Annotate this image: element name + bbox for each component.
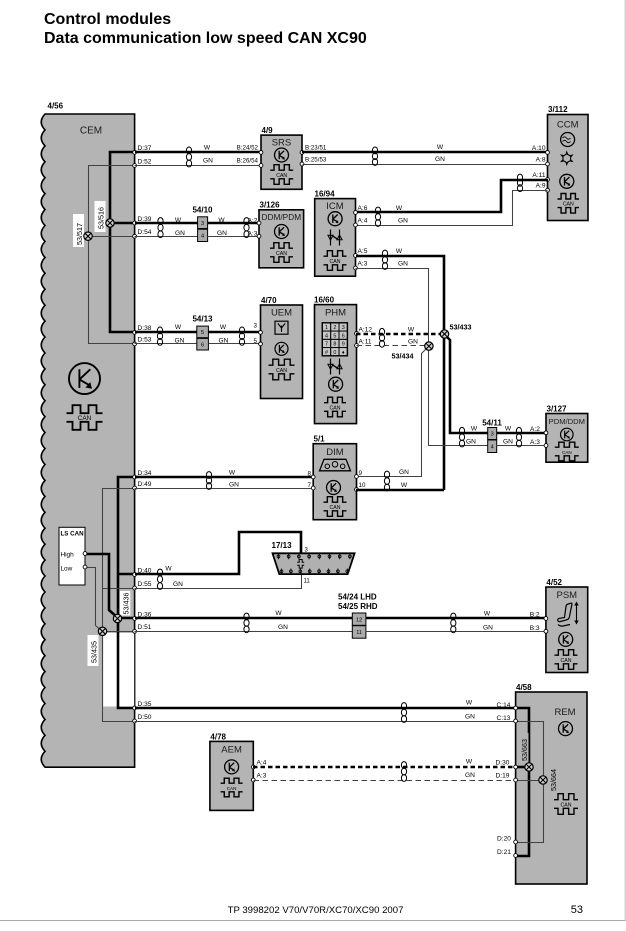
pin ICM A:6 [354, 211, 358, 215]
pin REM D:19 [514, 778, 518, 782]
svg-text:GN: GN [435, 156, 445, 163]
svg-text:A:9: A:9 [536, 183, 546, 190]
svg-text:CAN: CAN [330, 405, 341, 411]
svg-text:W: W [175, 217, 182, 224]
wire REM D:30 stub [516, 766, 529, 769]
icon UEM CAN [269, 359, 295, 380]
svg-text:GN: GN [173, 581, 183, 588]
svg-text:B:3: B:3 [530, 625, 540, 632]
module CCM 3/112 box [548, 115, 589, 221]
icon ICM immobilizer [328, 230, 342, 246]
svg-text:4/52: 4/52 [546, 578, 562, 587]
svg-text:GN: GN [465, 772, 475, 779]
junction 53/516 [106, 219, 114, 227]
icon PHM keypad [322, 323, 347, 356]
svg-text:High: High [61, 552, 75, 559]
icon PHM immobilizer [328, 359, 342, 375]
svg-text:54/25 RHD: 54/25 RHD [338, 602, 378, 611]
wire CEM D:54 to 54/10 GN [135, 236, 198, 238]
icon SRS CAN [270, 165, 293, 185]
pin REM C:14 [514, 706, 518, 710]
svg-text:8: 8 [333, 342, 336, 348]
svg-text:D:55: D:55 [138, 581, 152, 588]
wire CEM D:51 GN to 54/24 [135, 631, 353, 633]
svg-text:4: 4 [325, 333, 328, 339]
module PSM 4/52 box [546, 587, 588, 673]
pin CEM D:35 [133, 706, 137, 710]
svg-text:W: W [505, 426, 512, 433]
wire 54/13 to UEM pin3 W [208, 331, 260, 334]
twisted pair marker AEM pair [401, 762, 406, 782]
pin CCM A:11 [546, 178, 550, 182]
svg-text:53/516: 53/516 [97, 207, 106, 229]
icon AEM diagnostic K [225, 760, 239, 774]
svg-text:53: 53 [571, 904, 583, 916]
pin REM D:20 [514, 840, 518, 844]
page edge bottom [0, 920, 626, 922]
connector 54/24 pin 11 [352, 626, 366, 639]
svg-text:5: 5 [333, 333, 336, 339]
pin AEM A:4 [251, 765, 255, 769]
svg-text:D:53: D:53 [138, 337, 152, 344]
twisted pair marker row REM [401, 703, 406, 723]
svg-text:GN: GN [203, 158, 213, 165]
svg-text:9: 9 [342, 342, 345, 348]
svg-text:4/70: 4/70 [261, 296, 277, 305]
svg-text:17/13: 17/13 [272, 541, 293, 550]
icon PSM power seat [558, 602, 579, 627]
svg-text:5/1: 5/1 [314, 435, 326, 444]
pin DIM 10 [355, 488, 359, 492]
wire CEM D:40 W to 17/13 pin3 [135, 532, 301, 574]
svg-text:4/56: 4/56 [48, 102, 64, 111]
svg-text:W: W [229, 470, 236, 477]
pin CEM D:38 [133, 331, 137, 335]
svg-text:54/11: 54/11 [482, 419, 502, 428]
icon REM diagnostic K [559, 722, 573, 736]
twisted pair marker PHM pair [379, 328, 384, 347]
svg-text:3: 3 [254, 323, 258, 330]
wire CEM thin bus1 D:52-D:53 [89, 166, 135, 344]
svg-text:Data communication low speed C: Data communication low speed CAN XC90 [44, 30, 367, 47]
connector 54/13 pin 5 [197, 326, 209, 338]
svg-text:4/9: 4/9 [262, 126, 274, 135]
svg-text:A:10: A:10 [532, 145, 546, 152]
pin DIM 7 [311, 486, 315, 490]
pin PDM A:3 [544, 444, 548, 448]
pin CEM D:40 [133, 573, 137, 577]
svg-text:B:23/51: B:23/51 [305, 145, 327, 152]
twisted pair marker row SRS right [372, 147, 377, 165]
svg-text:D:51: D:51 [138, 624, 152, 631]
pin CEM D:49 [133, 486, 137, 490]
svg-text:10: 10 [359, 482, 366, 489]
svg-text:A:2: A:2 [530, 426, 540, 433]
wire 54/13 to UEM pin5 GN [209, 343, 261, 345]
icon ICM diagnostic K [328, 212, 342, 226]
svg-text:5: 5 [254, 338, 258, 345]
svg-text:ICM: ICM [326, 201, 344, 212]
svg-text:CAN: CAN [227, 786, 237, 791]
svg-text:4/58: 4/58 [516, 683, 532, 692]
svg-text:UEM: UEM [271, 308, 292, 319]
label 53/435 [88, 635, 99, 666]
icon PDM diagnostic K [561, 428, 574, 441]
wire REM internal 53/663 W [516, 708, 529, 856]
pin PHM A:11 [355, 344, 359, 348]
svg-text:#: # [325, 350, 328, 356]
svg-text:W: W [437, 144, 444, 151]
label 53/516 [95, 201, 106, 232]
svg-text:GN: GN [398, 218, 408, 225]
label 53/436 [120, 591, 131, 616]
svg-text:1: 1 [325, 325, 328, 331]
svg-text:REM: REM [554, 707, 575, 718]
pin CEM D:55 [133, 586, 137, 590]
pin CEM D:36 [133, 617, 137, 621]
module PDM/DDM 3/127 box [546, 414, 588, 463]
icon AEM CAN [221, 778, 243, 797]
wire CEM D:39 to 54/10 W [135, 222, 198, 225]
svg-text:GN: GN [175, 337, 185, 344]
icon PDM CAN [555, 442, 579, 461]
svg-text:Low: Low [61, 566, 73, 573]
pin ICM A:4 [354, 223, 358, 227]
connector 54/11 pin 4 [488, 440, 497, 453]
wire CEM D:38 to 54/13 W [135, 331, 197, 334]
module CEM 4/56 body [41, 114, 134, 767]
svg-text:GN: GN [483, 625, 493, 632]
svg-text:D:49: D:49 [138, 481, 152, 488]
label 53/517 [73, 214, 84, 247]
svg-text:PSM: PSM [557, 590, 578, 601]
svg-text:GN: GN [217, 230, 227, 237]
wire CEM D:34 to DIM pin8 W [135, 476, 313, 479]
svg-text:53/435: 53/435 [89, 641, 98, 663]
svg-text:C:13: C:13 [497, 715, 511, 722]
svg-text:GN: GN [408, 339, 418, 346]
label 53/663 [518, 733, 529, 763]
svg-text:PDM/DDM: PDM/DDM [549, 417, 585, 426]
pin DDM A:3 [257, 234, 261, 238]
pin DDM A:2 [257, 221, 261, 225]
svg-text:A:2: A:2 [248, 218, 258, 225]
pin SRS B:24/52 [259, 151, 263, 155]
svg-text:W: W [275, 610, 282, 617]
svg-text:W: W [204, 145, 211, 152]
wire ICM A:3 GN to junction 53/434 and 54/11 pin4 [356, 269, 488, 446]
svg-text:CCM: CCM [557, 120, 579, 131]
pin CEM D:53 [133, 342, 137, 346]
svg-text:GN: GN [399, 469, 409, 476]
icon PSM diagnostic K [559, 632, 573, 646]
twisted pair marker row PSM right [451, 613, 456, 633]
twisted pair marker row PSM left [244, 613, 249, 633]
icon REM CAN [554, 794, 578, 815]
module DIM 5/1 box [313, 444, 356, 520]
wire PHM A:11 dashed GN to junction 53/434 [357, 345, 429, 347]
svg-text:A:8: A:8 [536, 157, 546, 164]
svg-text:A:3: A:3 [248, 231, 258, 238]
svg-text:D:52: D:52 [138, 158, 152, 165]
pin CEM D:52 [133, 164, 137, 168]
pin REM D:21 [514, 854, 518, 858]
pin CEM D:34 [133, 475, 137, 479]
svg-text:53/433: 53/433 [450, 323, 472, 332]
svg-text:W: W [396, 248, 403, 255]
junction 53/663 [525, 763, 533, 771]
twisted pair marker row UEM left [157, 327, 162, 345]
svg-text:GN: GN [278, 624, 288, 631]
svg-text:CAN: CAN [563, 202, 574, 208]
svg-text:W: W [466, 700, 473, 707]
wire CEM D:49 to DIM pin7 GN [135, 488, 314, 490]
svg-text:W: W [408, 327, 415, 334]
pin SRS B:23/51 [300, 151, 304, 155]
svg-text:0: 0 [333, 350, 336, 356]
icon CCM climate circle [561, 133, 575, 147]
wire stub D:54 from junction 53/517 [89, 236, 135, 238]
svg-text:GN: GN [219, 337, 229, 344]
svg-text:4: 4 [491, 444, 494, 450]
connector 54/13 pin 6 [197, 338, 209, 350]
wire stub D:39 from junction 53/516 [110, 222, 135, 225]
svg-text:W: W [396, 205, 403, 212]
wire SRS to CCM GN [303, 164, 548, 166]
pin AEM A:3 [251, 778, 255, 782]
junction 53/436 [113, 614, 121, 622]
svg-text:CAN: CAN [561, 658, 572, 664]
svg-text:♦: ♦ [342, 350, 345, 356]
twisted pair marker 54/11 left [459, 427, 464, 447]
svg-text:53/517: 53/517 [75, 223, 84, 245]
icon CEM CAN [67, 405, 103, 430]
icon DDM CAN [270, 243, 293, 263]
wire REM internal 53/664 GN [516, 722, 544, 843]
twisted pair marker 54/11 right [516, 427, 521, 447]
pin UEM 5 [259, 342, 263, 346]
svg-text:TP 3998202 V70/V70R/XC70/XC90: TP 3998202 V70/V70R/XC70/XC90 2007 [228, 905, 404, 916]
twisted pair marker row UEM right [239, 327, 244, 345]
pin SRS B:26/54 [259, 164, 263, 168]
wire LS CAN High to junction 53/436 [85, 554, 118, 618]
twisted pair marker row OBD [157, 569, 162, 589]
svg-text:Control modules: Control modules [44, 11, 171, 28]
wire ICM A:5 W to junction 53/433 and DIM pin10 [356, 256, 444, 490]
svg-text:9: 9 [359, 470, 363, 477]
svg-text:11: 11 [304, 579, 311, 585]
pin REM D:30 [514, 765, 518, 769]
svg-text:A:3: A:3 [530, 439, 540, 446]
svg-text:5: 5 [201, 330, 204, 336]
svg-text:PHM: PHM [325, 308, 346, 319]
connector 54/10 pin 3 [198, 217, 208, 229]
connector 54/24 pin 12 [352, 613, 366, 625]
wire 54/10 to DDM A:2 W [208, 222, 259, 225]
svg-text:53/664: 53/664 [549, 769, 558, 791]
svg-text:CAN: CAN [561, 802, 572, 808]
twisted pair marker row SRS left [186, 147, 191, 167]
wire CEM D:36 W to 54/24 [135, 617, 352, 620]
icon ICM CAN [324, 251, 347, 271]
wire junction 53/433 branch to 54/11 pin3 W [444, 334, 488, 433]
pin DIM 9 [355, 475, 359, 479]
wire 54/24 to PSM B:2 W [366, 617, 546, 620]
icon PHM CAN [324, 397, 346, 417]
twisted pair marker ICM A:5/A:3 [382, 250, 387, 269]
wire PHM A:12 dashed W to junction 53/433 [356, 333, 444, 336]
svg-text:A:3: A:3 [358, 261, 368, 268]
svg-text:W: W [218, 217, 225, 224]
wire DIM pin10 W to vertical [356, 489, 444, 492]
svg-text:D:20: D:20 [497, 836, 511, 843]
svg-text:A:3: A:3 [257, 773, 267, 780]
svg-text:W: W [175, 324, 182, 331]
svg-text:53/434: 53/434 [392, 352, 414, 361]
wire CEM D:37 to SRS W [135, 151, 261, 154]
svg-text:B:24/52: B:24/52 [237, 145, 259, 152]
wire stub D:36 from junction 53/436 [118, 617, 135, 620]
wire LS CAN Low to junction 53/435 [86, 568, 103, 632]
wire CEM thick bus1 D:37-D:38 [110, 152, 135, 332]
twisted pair marker row DDM right [244, 218, 249, 238]
icon CEM diagnostic K [69, 363, 100, 394]
pin PSM B:3 [544, 629, 548, 633]
svg-text:7: 7 [325, 342, 328, 348]
wire SRS to CCM W [302, 151, 548, 154]
pin SRS B:25/53 [300, 162, 304, 166]
svg-text:B:25/53: B:25/53 [305, 157, 327, 164]
connector 17/13 OBD trapezoid [273, 553, 355, 574]
svg-text:W: W [401, 482, 408, 489]
svg-text:C:14: C:14 [497, 702, 511, 709]
svg-text:A:4: A:4 [257, 760, 267, 767]
svg-text:AEM: AEM [221, 745, 242, 756]
svg-text:D:19: D:19 [496, 773, 510, 780]
svg-text:3: 3 [201, 221, 204, 227]
wire CEM D:52 to SRS GN [135, 165, 262, 167]
svg-text:CAN: CAN [276, 173, 287, 179]
twisted pair marker ICM A:6/A:4 [375, 207, 380, 226]
wire CEM D:35 W to REM C:14 [135, 707, 516, 710]
svg-text:W: W [165, 566, 172, 573]
wire AEM A:4 dashed W to REM D:30 [253, 766, 516, 769]
svg-text:11: 11 [356, 630, 362, 636]
svg-text:CAN: CAN [276, 368, 287, 374]
svg-text:A:4: A:4 [358, 218, 368, 225]
wire ICM A:4 to CCM A:9 GN [356, 191, 548, 226]
svg-text:D:21: D:21 [497, 849, 511, 856]
icon DDM diagnostic K [275, 225, 289, 239]
junction 53/433 [440, 330, 448, 338]
svg-text:GN: GN [175, 230, 185, 237]
module REM 4/58 box [516, 692, 587, 884]
svg-text:D:50: D:50 [138, 714, 152, 721]
wire CEM D:50 GN to REM C:13 [135, 721, 516, 723]
svg-text:4: 4 [201, 233, 204, 239]
svg-text:DIM: DIM [326, 447, 344, 458]
pin LS CAN High [83, 552, 87, 556]
LS CAN internal box [59, 527, 85, 585]
pin CEM D:51 [133, 629, 137, 633]
pin CEM D:50 [133, 719, 137, 723]
connector 54/10 pin 4 [198, 229, 208, 241]
icon CCM CAN [558, 194, 580, 214]
svg-text:A:11: A:11 [532, 172, 545, 179]
wire CEM D:53 to 54/13 GN [135, 343, 197, 345]
twisted pair marker row DDM left [158, 218, 163, 238]
svg-text:B:2: B:2 [530, 612, 540, 619]
wire 54/24 to PSM B:3 GN [366, 631, 546, 633]
svg-text:B:26/54: B:26/54 [237, 158, 259, 165]
svg-text:GN: GN [465, 714, 475, 721]
junction 53/517 [84, 232, 92, 240]
icon DIM CAN [324, 497, 347, 517]
svg-text:54/24 LHD: 54/24 LHD [338, 593, 377, 602]
pin ICM A:5 [354, 254, 358, 258]
module SRS 4/9 box [261, 135, 302, 189]
wire CEM D:55 GN to 17/13 pin11 [135, 575, 302, 589]
svg-text:16/94: 16/94 [315, 190, 336, 199]
wire stub D:55 T from thin bus2 [103, 588, 135, 590]
twisted pair marker row DIM left [206, 472, 211, 490]
wire CEM thin bus2 D:49-D:50 [103, 489, 135, 722]
svg-text:A:12: A:12 [359, 327, 373, 334]
pin ICM A:3 [354, 266, 358, 270]
icon DIM diagnostic K [327, 481, 341, 495]
svg-text:3/112: 3/112 [548, 105, 568, 114]
svg-text:54/10: 54/10 [192, 206, 213, 215]
wire stub D:40 T from thick bus2 [118, 573, 135, 576]
wire CEM thick bus2 D:34-D:35 [118, 477, 135, 708]
junction 53/435 [98, 627, 106, 635]
svg-text:DDM/PDM: DDM/PDM [261, 212, 301, 222]
icon DIM instrument cluster [320, 459, 351, 471]
pin DIM 8 [311, 475, 315, 479]
twisted pair marker DIM right [384, 471, 389, 491]
wire stub D:51 from junction 53/435 [103, 631, 135, 633]
pin CEM D:39 [133, 221, 137, 225]
wire AEM A:3 dashed GN to REM D:19 [254, 780, 516, 782]
pin LS CAN Low [83, 565, 87, 569]
pin CEM D:54 [133, 234, 137, 238]
pin PSM B:2 [544, 617, 548, 621]
twisted pair marker CCM A:11/A:9 [517, 174, 522, 192]
module AEM 4/78 box [210, 741, 253, 810]
icon UEM diagnostic K [275, 342, 288, 355]
wire REM D:19 stub [516, 780, 544, 782]
svg-text:W: W [471, 426, 478, 433]
svg-text:53/436: 53/436 [121, 593, 130, 615]
svg-text:2: 2 [333, 325, 336, 331]
connector 54/11 pin 3 [488, 428, 497, 440]
svg-text:6: 6 [201, 342, 204, 348]
svg-text:CAN: CAN [562, 450, 572, 455]
svg-text:A:5: A:5 [358, 248, 368, 255]
svg-text:GN: GN [503, 439, 513, 446]
label 53/664 [547, 763, 558, 793]
svg-text:W: W [466, 759, 473, 766]
svg-text:LS CAN: LS CAN [61, 531, 85, 538]
wire 54/11 to PDM A:2 W [497, 432, 546, 435]
wire 54/11 to PDM A:3 GN [497, 445, 547, 447]
svg-text:CEM: CEM [80, 126, 102, 137]
page edge right [624, 0, 626, 921]
module UEM 4/70 box [261, 305, 303, 399]
icon UEM antenna [275, 321, 288, 334]
pin CCM A:10 [546, 151, 550, 155]
svg-text:6: 6 [342, 333, 345, 339]
